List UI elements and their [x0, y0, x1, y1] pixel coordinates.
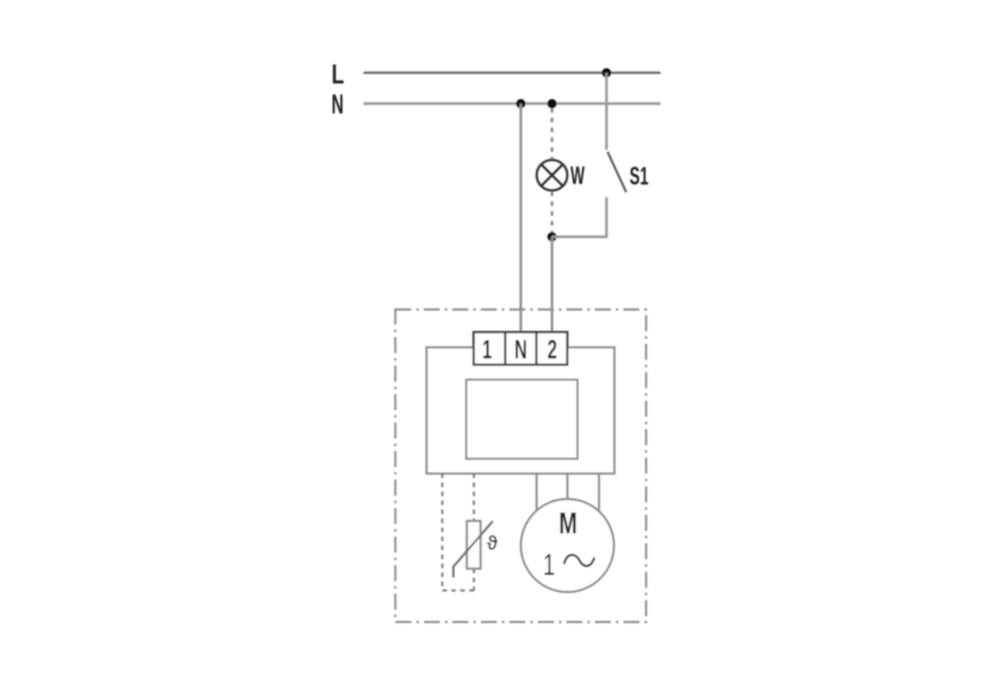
node junction on N at wire to terminal N	[516, 99, 525, 108]
AC sine symbol	[564, 555, 595, 566]
svg-text:M: M	[559, 506, 577, 541]
wire N line	[364, 102, 661, 105]
svg-text:L: L	[332, 60, 345, 91]
svg-text:2: 2	[547, 333, 557, 364]
wire L line	[364, 71, 661, 74]
thermistor sensor	[453, 521, 492, 578]
svg-text:1: 1	[543, 547, 555, 582]
lamp W	[537, 160, 568, 191]
node junction on N at lamp branch	[547, 99, 556, 108]
svg-text:N: N	[515, 333, 528, 364]
wire motor right	[598, 474, 600, 513]
switch S1 blade	[608, 152, 627, 192]
controller inner window	[466, 380, 577, 459]
wire from N to terminal N	[519, 104, 522, 333]
svg-text:1: 1	[482, 333, 492, 364]
svg-text:S1: S1	[630, 163, 649, 191]
wire motor middle	[566, 474, 568, 503]
wire dashed sensor right lower	[473, 569, 475, 591]
svg-text:ϑ: ϑ	[487, 534, 498, 555]
wire dashed sensor right upper	[473, 474, 475, 522]
terminal block 1-N-2	[474, 332, 568, 365]
motor M1~	[521, 499, 614, 592]
node junction lamp/switch	[547, 232, 556, 241]
wire dashed from lamp to junction below	[551, 192, 554, 235]
wire dashed from N junction to lamp	[551, 108, 554, 160]
wire from junction to terminal 2	[551, 237, 554, 333]
wire dashed sensor bottom	[442, 589, 474, 591]
enclosure dash-dot boundary	[395, 310, 646, 623]
wire from switch to junction (L-bend)	[552, 197, 607, 237]
node junction on L at switch	[602, 68, 611, 77]
wire motor left	[535, 474, 537, 513]
wire dashed sensor left	[441, 474, 443, 591]
device box	[427, 347, 615, 473]
wire from L junction down to switch	[605, 73, 608, 150]
svg-text:N: N	[332, 88, 344, 120]
svg-text:W: W	[571, 162, 586, 190]
